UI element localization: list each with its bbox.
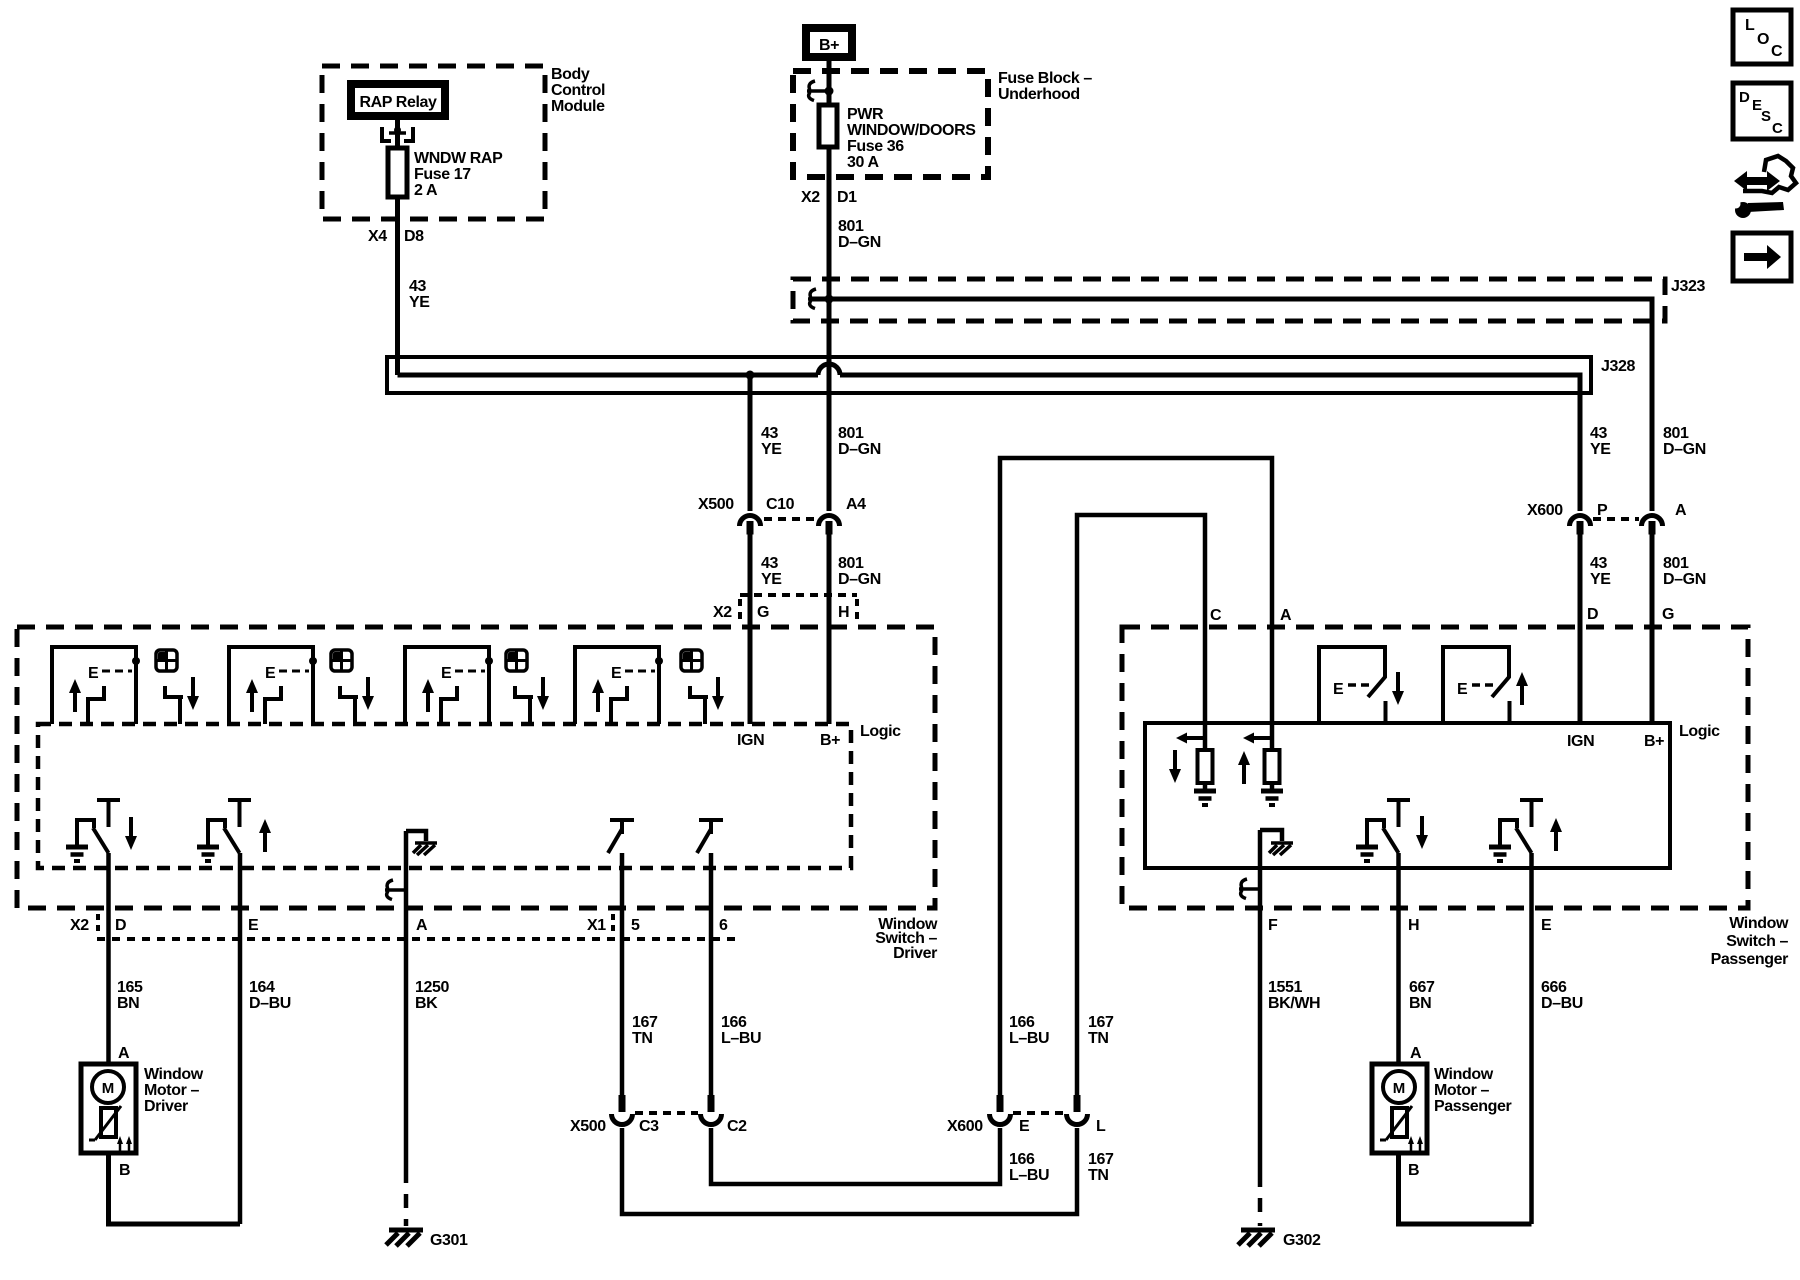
svg-text:D–GN: D–GN <box>838 441 881 458</box>
svg-text:D1: D1 <box>837 189 857 206</box>
svg-text:Fuse Block –: Fuse Block – <box>998 70 1092 87</box>
svg-text:YE: YE <box>409 294 430 311</box>
svg-text:Module: Module <box>551 98 605 115</box>
svg-text:H: H <box>838 604 849 621</box>
svg-text:A: A <box>1675 502 1687 519</box>
svg-text:D–BU: D–BU <box>249 995 291 1012</box>
svg-text:TN: TN <box>1088 1030 1109 1047</box>
svg-text:WINDOW/DOORS: WINDOW/DOORS <box>847 122 976 139</box>
svg-text:X2: X2 <box>70 917 89 934</box>
svg-text:BK/WH: BK/WH <box>1268 995 1320 1012</box>
svg-text:G: G <box>1662 606 1674 623</box>
svg-text:YE: YE <box>761 571 782 588</box>
svg-text:1250: 1250 <box>415 979 449 996</box>
svg-text:C: C <box>1210 607 1222 624</box>
svg-text:TN: TN <box>632 1030 653 1047</box>
svg-text:Motor –: Motor – <box>1434 1082 1489 1099</box>
svg-text:X500: X500 <box>698 496 734 513</box>
svg-text:G: G <box>757 604 769 621</box>
svg-text:Fuse 17: Fuse 17 <box>414 166 471 183</box>
svg-text:A: A <box>1410 1045 1422 1062</box>
svg-text:E: E <box>248 917 259 934</box>
svg-text:F: F <box>1268 917 1278 934</box>
svg-text:J323: J323 <box>1671 278 1705 295</box>
svg-text:J328: J328 <box>1601 358 1635 375</box>
svg-text:B+: B+ <box>820 732 840 749</box>
svg-text:IGN: IGN <box>737 732 764 749</box>
svg-text:A4: A4 <box>846 496 866 513</box>
svg-text:YE: YE <box>1590 571 1611 588</box>
svg-text:S: S <box>1761 108 1771 125</box>
svg-text:H: H <box>1408 917 1419 934</box>
svg-text:D–GN: D–GN <box>1663 441 1706 458</box>
svg-text:167: 167 <box>1088 1014 1114 1031</box>
svg-text:C10: C10 <box>766 496 795 513</box>
svg-text:801: 801 <box>838 555 864 572</box>
svg-text:164: 164 <box>249 979 275 996</box>
svg-text:43: 43 <box>1590 555 1607 572</box>
svg-text:801: 801 <box>1663 555 1689 572</box>
svg-text:G302: G302 <box>1283 1232 1321 1249</box>
svg-text:Control: Control <box>551 82 605 99</box>
svg-text:166: 166 <box>721 1014 747 1031</box>
svg-text:WNDW RAP: WNDW RAP <box>414 150 503 167</box>
svg-text:L–BU: L–BU <box>721 1030 761 1047</box>
svg-text:L: L <box>1745 17 1755 34</box>
svg-text:2 A: 2 A <box>414 182 438 199</box>
svg-text:L–BU: L–BU <box>1009 1030 1049 1047</box>
svg-text:P: P <box>1597 502 1608 519</box>
svg-text:Window: Window <box>1434 1066 1494 1083</box>
svg-text:D: D <box>1739 89 1750 106</box>
svg-text:666: 666 <box>1541 979 1567 996</box>
svg-text:A: A <box>416 917 428 934</box>
svg-text:X600: X600 <box>1527 502 1563 519</box>
svg-text:801: 801 <box>838 218 864 235</box>
svg-text:165: 165 <box>117 979 143 996</box>
svg-text:801: 801 <box>838 425 864 442</box>
svg-text:A: A <box>1280 607 1292 624</box>
svg-text:Underhood: Underhood <box>998 86 1080 103</box>
svg-text:A: A <box>118 1045 130 1062</box>
svg-text:Switch –: Switch – <box>1726 933 1788 950</box>
svg-text:43: 43 <box>761 555 778 572</box>
svg-text:Logic: Logic <box>860 723 901 740</box>
svg-text:B: B <box>1408 1162 1419 1179</box>
svg-text:X4: X4 <box>368 228 387 245</box>
svg-text:X500: X500 <box>570 1118 606 1135</box>
svg-text:TN: TN <box>1088 1167 1109 1184</box>
svg-text:E: E <box>1541 917 1552 934</box>
svg-text:Driver: Driver <box>893 945 937 962</box>
svg-text:RAP Relay: RAP Relay <box>359 94 437 111</box>
svg-text:Driver: Driver <box>144 1098 188 1115</box>
svg-text:43: 43 <box>761 425 778 442</box>
svg-text:X2: X2 <box>713 604 732 621</box>
svg-text:X1: X1 <box>587 917 606 934</box>
svg-text:801: 801 <box>1663 425 1689 442</box>
svg-text:D–GN: D–GN <box>838 234 881 251</box>
svg-text:Fuse 36: Fuse 36 <box>847 138 904 155</box>
svg-text:C2: C2 <box>727 1118 747 1135</box>
svg-text:D–BU: D–BU <box>1541 995 1583 1012</box>
svg-text:167: 167 <box>632 1014 658 1031</box>
svg-text:5: 5 <box>631 917 640 934</box>
svg-text:D8: D8 <box>404 228 424 245</box>
svg-text:Window: Window <box>144 1066 204 1083</box>
svg-text:43: 43 <box>1590 425 1607 442</box>
svg-text:L–BU: L–BU <box>1009 1167 1049 1184</box>
svg-text:O: O <box>1757 31 1769 48</box>
svg-text:C: C <box>1772 120 1783 137</box>
svg-text:Passenger: Passenger <box>1711 951 1789 968</box>
svg-text:B: B <box>119 1162 130 1179</box>
svg-text:E: E <box>1019 1118 1030 1135</box>
svg-text:167: 167 <box>1088 1151 1114 1168</box>
svg-text:YE: YE <box>1590 441 1611 458</box>
svg-text:BN: BN <box>117 995 139 1012</box>
svg-text:D–GN: D–GN <box>838 571 881 588</box>
svg-text:Motor –: Motor – <box>144 1082 199 1099</box>
svg-text:Passenger: Passenger <box>1434 1098 1512 1115</box>
svg-text:BN: BN <box>1409 995 1431 1012</box>
svg-text:667: 667 <box>1409 979 1435 996</box>
svg-text:43: 43 <box>409 278 426 295</box>
svg-text:L: L <box>1096 1118 1106 1135</box>
svg-text:B+: B+ <box>819 37 839 54</box>
svg-text:IGN: IGN <box>1567 733 1594 750</box>
svg-text:1551: 1551 <box>1268 979 1302 996</box>
svg-text:Window: Window <box>1729 915 1789 932</box>
svg-text:6: 6 <box>719 917 728 934</box>
svg-text:D–GN: D–GN <box>1663 571 1706 588</box>
svg-text:Logic: Logic <box>1679 723 1720 740</box>
svg-text:X2: X2 <box>801 189 820 206</box>
svg-text:B+: B+ <box>1644 733 1664 750</box>
svg-text:C: C <box>1771 43 1783 60</box>
svg-text:D: D <box>1587 606 1598 623</box>
svg-text:Body: Body <box>551 66 590 83</box>
svg-text:X600: X600 <box>947 1118 983 1135</box>
svg-text:G301: G301 <box>430 1232 468 1249</box>
svg-text:YE: YE <box>761 441 782 458</box>
svg-text:BK: BK <box>415 995 438 1012</box>
svg-text:166: 166 <box>1009 1151 1035 1168</box>
svg-text:30 A: 30 A <box>847 154 879 171</box>
svg-text:C3: C3 <box>639 1118 659 1135</box>
svg-text:D: D <box>115 917 126 934</box>
svg-text:166: 166 <box>1009 1014 1035 1031</box>
svg-text:PWR: PWR <box>847 106 884 123</box>
